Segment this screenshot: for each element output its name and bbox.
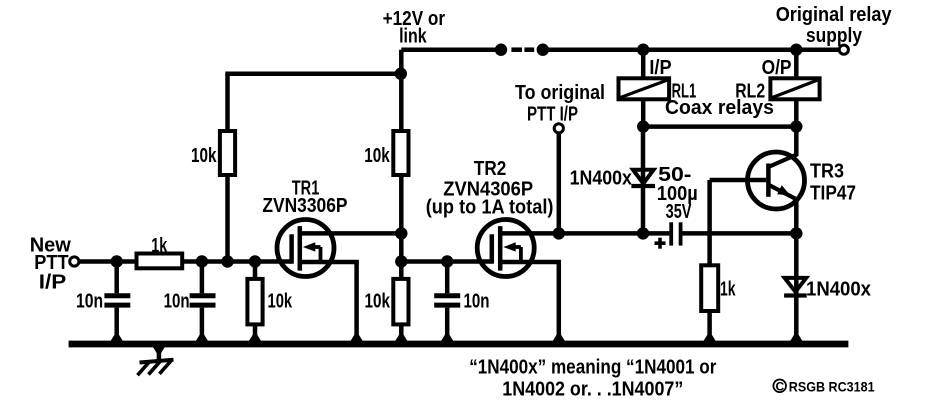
capacitor C4 electrolytic 50-100u 35V <box>669 222 673 245</box>
wire R2 bottom lead <box>399 173 404 262</box>
wire R1 top lead <box>225 74 230 133</box>
node junction RL1 top <box>637 44 649 56</box>
svg-text:I/P: I/P <box>39 272 67 294</box>
svg-text:TIP47: TIP47 <box>810 183 856 205</box>
relay RL2 coil <box>794 50 799 80</box>
terminal Original relay supply <box>839 45 848 54</box>
diode D2 1N400x <box>785 278 807 292</box>
wire R1 bottom lead <box>225 173 230 262</box>
wire TR2 drain line to capacitor C4 <box>500 231 669 236</box>
wire relay bottoms <box>643 124 796 129</box>
svg-text:1N400x: 1N400x <box>806 279 871 301</box>
terminal New PTT I/P input <box>70 257 79 266</box>
svg-text:To original: To original <box>515 82 605 104</box>
svg-text:10k: 10k <box>365 291 391 313</box>
wire PTT terminal drop <box>557 133 562 233</box>
resistor 1k R7 base pulldown <box>707 180 712 342</box>
ground rail <box>69 341 849 348</box>
wire dashed link segment <box>511 47 522 52</box>
svg-text:10k: 10k <box>364 145 390 167</box>
svg-text:1k: 1k <box>151 235 168 257</box>
node rail bump TR2 source <box>552 335 565 342</box>
svg-text:ZVN3306P: ZVN3306P <box>262 195 347 217</box>
node junction C1 <box>111 255 123 267</box>
svg-text:10n: 10n <box>164 291 190 313</box>
svg-text:1N4002 or. . .1N4007”: 1N4002 or. . .1N4007” <box>502 379 683 401</box>
svg-text:TR3: TR3 <box>810 161 844 183</box>
transistor TR3 TIP47 <box>748 152 805 209</box>
svg-text:supply: supply <box>806 25 863 47</box>
svg-text:10n: 10n <box>76 291 103 313</box>
resistor 10k R2 top-middle <box>393 131 408 175</box>
diode D1 1N400x <box>633 170 654 184</box>
node junction R5 top <box>249 255 261 267</box>
node junction dot left of dash <box>495 44 507 56</box>
node junction C3 <box>441 255 453 267</box>
capacitor 10n C3 <box>445 262 450 294</box>
node rail bump R7 <box>703 335 716 342</box>
node junction RL2 bottom <box>790 120 802 132</box>
wire branch to R1 <box>225 71 401 76</box>
svg-text:Original relay: Original relay <box>776 4 893 26</box>
node rail bump R5 <box>249 335 262 342</box>
node junction C2 <box>196 255 208 267</box>
svg-text:link: link <box>399 26 427 48</box>
node junction RL2 top <box>790 44 802 56</box>
svg-text:35V: 35V <box>666 201 692 223</box>
wire node to TR2 gate <box>401 259 492 264</box>
svg-text:I/P: I/P <box>649 57 671 79</box>
svg-text:Coax relays: Coax relays <box>665 97 774 119</box>
svg-text:(up to 1A total): (up to 1A total) <box>426 197 554 219</box>
node junction +12V branch <box>395 68 407 80</box>
resistor 1k R3 input series <box>137 254 183 269</box>
svg-text:10k: 10k <box>191 145 217 167</box>
svg-text:10k: 10k <box>268 290 293 312</box>
svg-text:C: C <box>776 379 785 393</box>
wire TR1 drain to node <box>300 231 402 236</box>
node rail bump D2 <box>790 335 803 342</box>
wire +12V vertical drop to R2 <box>399 50 404 133</box>
node junction D1 bottom <box>637 227 649 239</box>
transistor TR1 ZVN3306P mosfet <box>277 220 334 277</box>
wire TR1 source to ground <box>300 262 357 342</box>
node rail bump C1 <box>110 335 123 342</box>
node junction TR2 drain / PTT <box>553 227 565 239</box>
capacitor 10n C1 <box>114 262 119 294</box>
svg-text:1N400x: 1N400x <box>570 168 632 190</box>
wire top rail right <box>539 47 839 52</box>
node rail bump C2 <box>195 335 208 342</box>
svg-text:TR2: TR2 <box>474 158 506 180</box>
wire C4 to TR3 emitter node <box>683 231 797 236</box>
resistor 10k R1 top-left <box>220 131 235 175</box>
wire TR2 source to ground <box>500 262 559 342</box>
node junction TR3 emitter <box>790 227 802 239</box>
node junction TR1 drain / R2 <box>395 227 407 239</box>
node junction dot right of dash <box>537 44 549 56</box>
wire main input line to TR1 gate <box>79 259 292 264</box>
ground symbol <box>153 347 165 353</box>
node rail bump R6 <box>395 335 408 342</box>
node junction R1 bottom <box>221 255 233 267</box>
node junction RL1 bottom <box>637 120 649 132</box>
resistor 10k R5 gate pulldown TR1 <box>253 262 258 343</box>
svg-text:PTT I/P: PTT I/P <box>527 104 578 126</box>
transistor TR2 ZVN4306P mosfet <box>477 220 534 277</box>
relay RL1 coil <box>641 50 646 80</box>
terminal To original PTT I/P <box>554 124 563 133</box>
capacitor 10n C2 <box>200 262 205 294</box>
node junction R6 top / TR2 gate <box>395 255 407 267</box>
svg-text:RSGB RC3181: RSGB RC3181 <box>789 379 875 395</box>
resistor 10k R6 gate pulldown TR2 <box>399 262 404 343</box>
svg-text:1k: 1k <box>720 279 736 301</box>
label copyright RSGB RC3181 <box>773 380 786 393</box>
svg-text:“1N400x” meaning “1N4001 or: “1N400x” meaning “1N4001 or <box>469 357 716 379</box>
node rail bump C3 <box>441 335 454 342</box>
node rail bump TR1 source <box>350 335 363 342</box>
wire +12V top rail left solid <box>401 47 505 52</box>
svg-text:10n: 10n <box>464 291 490 313</box>
svg-text:O/P: O/P <box>762 57 792 79</box>
